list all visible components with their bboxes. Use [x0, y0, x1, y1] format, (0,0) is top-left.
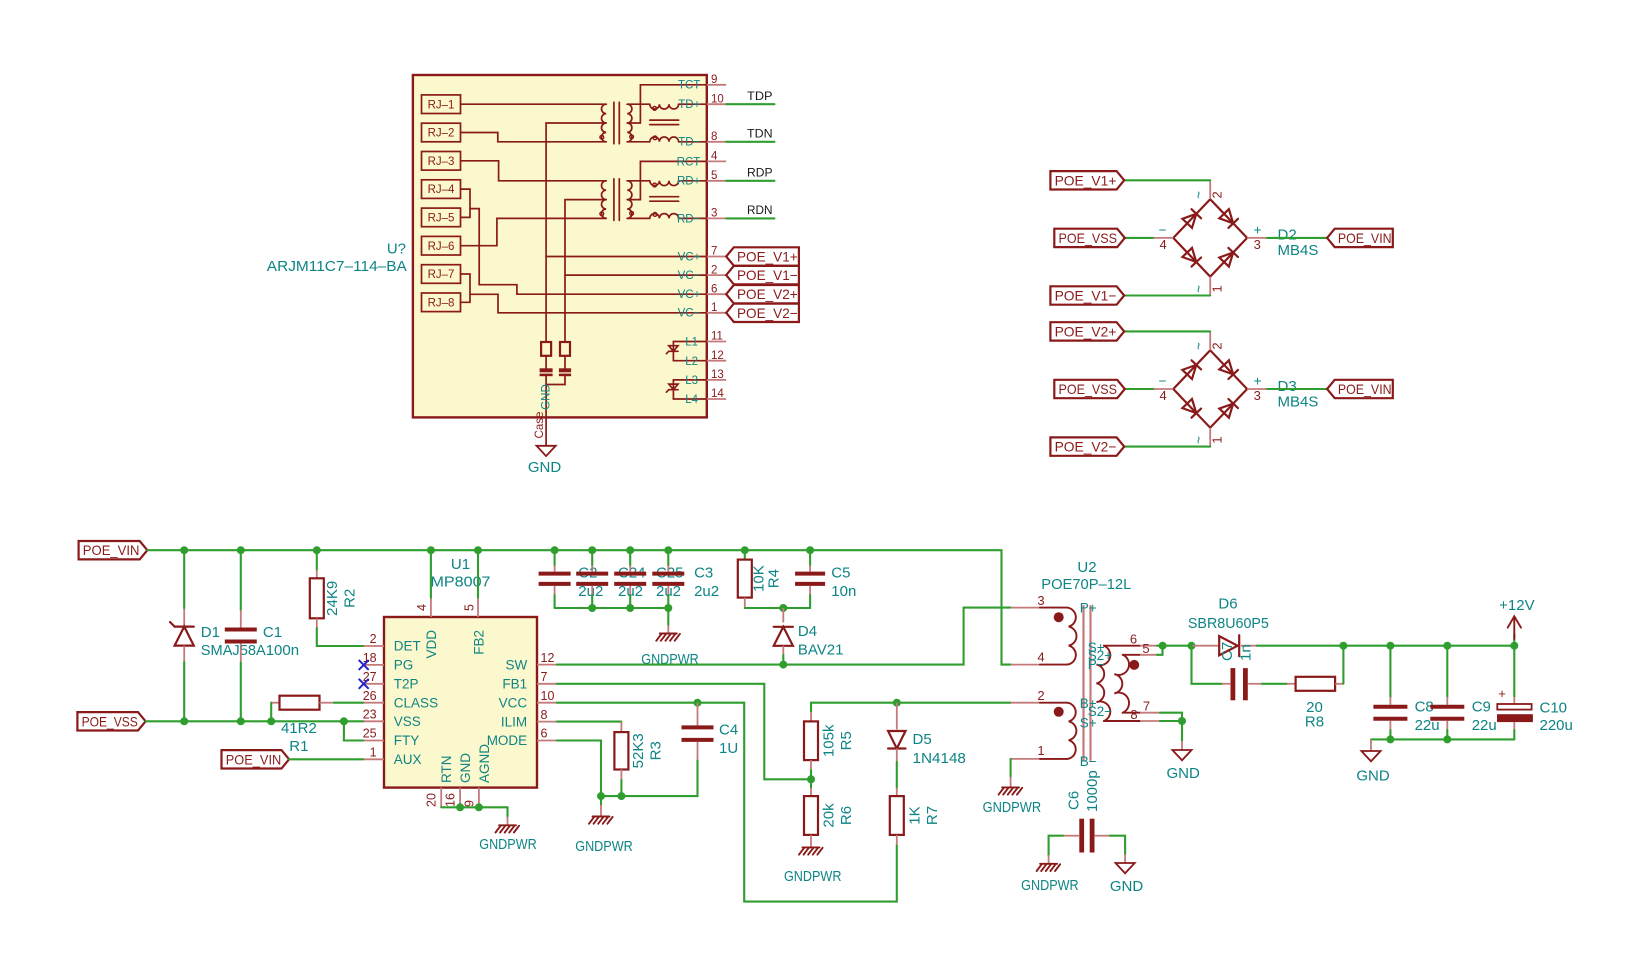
wire RJ-4 / RJ-5 tie	[461, 189, 471, 217]
ground GND (C6)	[1116, 863, 1135, 873]
bridge D2 pin stubs	[1209, 180, 1211, 199]
global label POE_VSS (bridge D2)	[1054, 229, 1125, 247]
svg-text:+12V: +12V	[1499, 597, 1534, 614]
svg-text:2: 2	[711, 264, 717, 276]
U1 pin 6 MODE	[537, 740, 557, 742]
svg-text:1n: 1n	[1238, 644, 1255, 661]
RJ-3 contact box	[422, 152, 461, 171]
svg-text:MB4S: MB4S	[1278, 242, 1319, 259]
bridge D3 diode 4-1	[1182, 399, 1196, 413]
svg-text:TD+: TD+	[678, 99, 700, 111]
RJ-4 contact box	[422, 180, 461, 199]
wire +12V output rail	[1257, 645, 1514, 647]
svg-text:8: 8	[541, 708, 548, 722]
svg-text:RJ–5: RJ–5	[428, 213, 455, 225]
T2 primary polarity dot	[600, 212, 604, 216]
svg-text:1: 1	[1037, 743, 1044, 758]
U1 pin 8 ILIM	[537, 721, 557, 723]
power symbol GNDPWR (C6)	[1040, 863, 1057, 865]
capacitor C25 body	[629, 550, 631, 565]
wire R2 to DET pin	[317, 628, 364, 646]
svg-text:GND: GND	[1167, 765, 1201, 782]
wire net RDN	[726, 217, 774, 219]
svg-text:POE_V2+: POE_V2+	[737, 286, 798, 302]
svg-text:C9: C9	[1472, 699, 1491, 716]
svg-text:D1: D1	[201, 624, 220, 641]
svg-text:26: 26	[363, 689, 377, 703]
svg-text:52K3: 52K3	[630, 733, 647, 768]
svg-text:220u: 220u	[1540, 717, 1573, 734]
svg-text:SW: SW	[505, 657, 527, 672]
svg-text:20: 20	[425, 793, 439, 807]
wire POE_V2+ to bridge D3	[1124, 330, 1210, 332]
global label POE_V1+	[1050, 171, 1124, 189]
svg-text:RTN: RTN	[439, 755, 454, 783]
svg-text:FTY: FTY	[394, 733, 420, 748]
U1 pin 1 AUX	[364, 758, 384, 760]
svg-text:GND: GND	[458, 753, 473, 783]
svg-text:POE_V2−: POE_V2−	[737, 305, 798, 321]
svg-text:SMAJ58A: SMAJ58A	[201, 642, 266, 659]
resistor R5 105k	[810, 703, 812, 712]
svg-text:4: 4	[1159, 237, 1166, 252]
U2 pin 6 lead	[1104, 645, 1140, 647]
bridge D3 diode 4-2	[1182, 365, 1196, 379]
U1 pin 12 SW	[537, 664, 557, 666]
wire pin5/pin6 tie	[1157, 646, 1163, 655]
bridge D3 diode 2-3	[1219, 360, 1233, 374]
transformer U2 primary winding P (pins 3-4)	[1011, 607, 1040, 609]
svg-text:20k: 20k	[821, 803, 838, 828]
transformer U2 secondary winding S2 (pins 5-7)	[1114, 655, 1129, 713]
svg-text:GND: GND	[541, 384, 553, 410]
svg-text:8: 8	[1130, 707, 1137, 722]
svg-text:100n: 100n	[266, 642, 299, 659]
wire net RDP	[726, 180, 774, 182]
svg-text:GNDPWR: GNDPWR	[784, 868, 842, 885]
U1 pin 5 FB2	[477, 598, 479, 617]
bridge rectifier D3 MB4S diamond	[1173, 350, 1247, 427]
wire RJ-6 to T2 primary bottom	[461, 218, 607, 245]
wire R1 to CLASS pin	[334, 702, 364, 704]
svg-text:2u2: 2u2	[694, 583, 719, 600]
svg-text:RJ–8: RJ–8	[428, 297, 455, 309]
svg-text:105k: 105k	[821, 724, 838, 757]
svg-text:RD+: RD+	[677, 176, 701, 188]
wire net VCC	[557, 703, 897, 902]
U1 pin 18 PG	[364, 664, 384, 666]
svg-text:POE_V1−: POE_V1−	[737, 267, 798, 283]
svg-text:5: 5	[462, 604, 476, 611]
svg-text:AUX: AUX	[394, 752, 422, 767]
U2 pin 7 lead	[1123, 712, 1140, 714]
global label POE_VIN (bridge D3)	[1327, 380, 1393, 398]
svg-text:2: 2	[370, 632, 377, 646]
svg-text:C3: C3	[694, 565, 713, 582]
connector pin 10 TD+	[707, 103, 726, 105]
svg-text:L2: L2	[685, 356, 698, 368]
svg-text:GNDPWR: GNDPWR	[983, 799, 1042, 816]
svg-text:12: 12	[541, 651, 555, 665]
svg-text:POE_V1+: POE_V1+	[1055, 172, 1117, 188]
diode D1 SMAJ58A	[183, 550, 185, 609]
svg-text:POE_VSS: POE_VSS	[1059, 381, 1118, 397]
power symbol GNDPWR (bias)	[1002, 786, 1019, 788]
svg-text:8: 8	[711, 131, 717, 143]
resistor R3 52K3	[620, 722, 622, 733]
global label POE_VIN (AUX)	[222, 750, 290, 768]
U2 secondary polarity dot	[1129, 660, 1139, 670]
no-connect X on PG	[359, 660, 369, 670]
T2 upper choke winding	[627, 180, 650, 182]
T2 core	[613, 179, 615, 221]
wire VSS dot to FTY pin	[344, 721, 364, 740]
T2 primary winding	[602, 181, 607, 219]
svg-text:12: 12	[711, 350, 724, 362]
T1 primary polarity dot	[600, 135, 604, 139]
svg-text:GNDPWR: GNDPWR	[1021, 877, 1079, 894]
svg-text:C1: C1	[263, 624, 282, 641]
svg-text:VC−: VC−	[678, 308, 701, 320]
svg-text:RJ–4: RJ–4	[428, 184, 455, 196]
svg-text:~: ~	[1192, 191, 1207, 199]
svg-text:R4: R4	[766, 569, 783, 588]
svg-text:3: 3	[711, 208, 717, 220]
svg-text:B−: B−	[1080, 754, 1097, 769]
termination resistor left	[541, 342, 551, 356]
connector pin 8 TD−	[707, 141, 726, 143]
svg-text:1N4148: 1N4148	[913, 750, 966, 767]
connector pin 11 L1	[707, 341, 726, 343]
svg-text:TCT: TCT	[678, 80, 700, 92]
T1 core	[613, 102, 615, 144]
connector pin 4 RCT	[707, 160, 726, 162]
capacitor C3 body	[667, 550, 669, 565]
svg-text:ILIM: ILIM	[501, 714, 527, 729]
svg-text:R7: R7	[924, 806, 941, 825]
svg-text:VCC: VCC	[499, 695, 528, 710]
svg-text:L4: L4	[685, 394, 698, 406]
svg-text:RDN: RDN	[747, 203, 773, 217]
svg-text:R3: R3	[648, 741, 665, 760]
U1 pin 16 GND	[459, 788, 461, 808]
termination resistor right	[560, 342, 570, 356]
svg-text:RJ–1: RJ–1	[428, 99, 455, 111]
svg-text:−: −	[1159, 223, 1167, 238]
svg-text:GND: GND	[528, 459, 562, 476]
svg-text:16: 16	[444, 793, 458, 807]
global label POE_V2+	[726, 285, 799, 303]
ground GND (secondary)	[1172, 750, 1191, 760]
svg-text:RJ–3: RJ–3	[428, 156, 455, 168]
capacitor C1 100n	[240, 550, 242, 610]
svg-text:1U: 1U	[719, 740, 738, 757]
wire net MODE to GNDPWR	[557, 741, 698, 797]
wire RJ-7 / RJ-8 tie	[461, 274, 471, 302]
svg-text:+: +	[1254, 223, 1262, 238]
T2 center-tap wire to pin	[627, 161, 707, 199]
U1 pin 27 T2P	[364, 683, 384, 685]
termination capacitor right	[564, 356, 566, 368]
svg-text:2: 2	[1037, 688, 1044, 703]
svg-text:7: 7	[711, 246, 717, 258]
T1 lower choke winding	[627, 141, 650, 143]
wire bridge D3 output POE_VIN	[1267, 388, 1327, 390]
svg-text:2: 2	[1210, 342, 1225, 349]
wire T2 center tap to termination / VC- pin 2	[565, 200, 606, 342]
svg-text:23: 23	[363, 708, 377, 722]
power symbol GNDPWR (divider)	[803, 846, 820, 848]
svg-text:C10: C10	[1540, 700, 1568, 717]
svg-text:POE_VIN: POE_VIN	[226, 751, 282, 767]
svg-text:POE_V2+: POE_V2+	[1055, 323, 1117, 339]
connector pin 9 TCT	[707, 84, 726, 86]
wire POE_VSS rail	[146, 720, 364, 722]
svg-text:+: +	[1498, 686, 1506, 701]
wire net TDN	[726, 141, 774, 143]
wire POE_VSS to bridge D2	[1125, 237, 1153, 239]
wire RJ-3 to T2 primary top	[461, 161, 607, 181]
capacitor C7 1n	[1222, 683, 1230, 685]
svg-text:VC−: VC−	[678, 270, 701, 282]
svg-text:1: 1	[1210, 285, 1225, 292]
transformer U2 secondary winding S (pins 6-8)	[1097, 646, 1111, 721]
svg-text:POE_V2−: POE_V2−	[1055, 439, 1117, 455]
U2 pin 8 lead	[1104, 720, 1140, 722]
resistor R2 24K9	[316, 550, 318, 570]
svg-text:MP8007: MP8007	[431, 574, 491, 591]
capacitor C24 body	[591, 550, 593, 565]
svg-text:P+: P+	[1080, 601, 1097, 616]
connector pin 2 VC−	[707, 274, 726, 276]
svg-text:R6: R6	[838, 806, 855, 825]
svg-text:TD−: TD−	[678, 137, 700, 149]
svg-text:1K: 1K	[907, 806, 924, 824]
bridge rectifier D2 MB4S diamond	[1173, 199, 1247, 276]
transformer U2 bias winding B (pins 2-1)	[1011, 702, 1040, 704]
svg-text:5: 5	[1142, 641, 1149, 656]
svg-text:FB1: FB1	[502, 677, 527, 692]
wire secondary output node	[1163, 645, 1192, 647]
svg-text:VSS: VSS	[394, 714, 421, 729]
capacitor C5 10n	[809, 550, 811, 565]
wire net FB1 to divider	[557, 684, 811, 780]
svg-text:VDD: VDD	[424, 630, 439, 659]
global label POE_VIN (input rail)	[79, 541, 148, 559]
svg-text:R2: R2	[342, 589, 359, 608]
svg-text:GND: GND	[1356, 768, 1390, 785]
svg-text:1: 1	[1210, 436, 1225, 443]
wire output ground bus	[1371, 738, 1514, 740]
RJ-1 contact box	[422, 95, 461, 114]
connector pin 6 VC+	[707, 293, 726, 295]
svg-text:POE_V1−: POE_V1−	[1055, 288, 1117, 304]
svg-text:CLASS: CLASS	[394, 695, 438, 710]
bridge D2 diode 2-3	[1219, 209, 1233, 223]
bridge D3 pin stubs	[1209, 331, 1211, 350]
junction dots on POE_VIN rail	[180, 546, 188, 554]
resistor R8 20	[1287, 683, 1296, 685]
svg-text:6: 6	[711, 283, 717, 295]
svg-text:RJ–6: RJ–6	[428, 241, 455, 253]
svg-text:~: ~	[1192, 342, 1207, 350]
svg-text:C6: C6	[1066, 791, 1083, 810]
svg-text:TDN: TDN	[747, 127, 773, 141]
svg-text:4: 4	[415, 604, 429, 611]
svg-text:9: 9	[711, 74, 717, 86]
svg-text:3: 3	[1254, 388, 1261, 403]
svg-text:GNDPWR: GNDPWR	[575, 838, 633, 855]
bridge D2 diode 4-2	[1182, 214, 1196, 228]
global label POE_V1−	[726, 266, 799, 284]
U1 pin 2 DET	[364, 645, 384, 647]
svg-text:FB2: FB2	[471, 630, 486, 655]
T2 lower choke winding	[627, 217, 650, 219]
resistor R6 20k	[810, 788, 812, 796]
svg-text:11: 11	[711, 331, 723, 343]
RJ-2 contact box	[422, 123, 461, 142]
svg-text:VC+: VC+	[678, 251, 701, 263]
termination capacitor left	[545, 356, 547, 368]
connector pin 3 RD−	[707, 217, 726, 219]
U1 pin 26 CLASS	[364, 702, 384, 704]
RJ-8 contact box	[422, 293, 461, 312]
U1 pin 9 AGND	[478, 788, 480, 808]
T2 choke core	[650, 196, 679, 198]
svg-text:RJ–7: RJ–7	[428, 269, 455, 281]
svg-text:6: 6	[541, 727, 548, 741]
RJ-6 contact box	[422, 236, 461, 255]
svg-text:U2: U2	[1077, 559, 1096, 576]
svg-text:10: 10	[711, 93, 724, 105]
power symbol GNDPWR (mode)	[593, 816, 610, 818]
svg-text:R5: R5	[838, 731, 855, 750]
svg-text:Case: Case	[534, 412, 546, 439]
svg-text:7: 7	[1143, 699, 1150, 714]
wire RJ-7/8 to VC- pin 1	[470, 294, 707, 313]
svg-text:POE_VSS: POE_VSS	[1059, 230, 1118, 246]
svg-text:POE_VSS: POE_VSS	[82, 713, 138, 729]
svg-text:U1: U1	[451, 556, 470, 573]
wire POE_V1+ to bridge D2	[1124, 179, 1210, 181]
snubber branch wire	[1192, 646, 1223, 684]
svg-text:MB4S: MB4S	[1278, 393, 1319, 410]
power symbol +12V	[1513, 634, 1515, 645]
svg-text:S+: S+	[1080, 716, 1097, 731]
connector pin 5 RD+	[707, 180, 726, 182]
svg-text:PG: PG	[394, 658, 414, 673]
wire R1 to POE_VSS rail	[270, 703, 272, 722]
svg-text:POE70P–12L: POE70P–12L	[1041, 576, 1131, 593]
power symbol GNDPWR (cap bank)	[660, 633, 677, 635]
global label POE_VSS (rail)	[77, 712, 145, 730]
U2 pin 5 lead	[1123, 654, 1140, 656]
global label POE_V2−	[1050, 437, 1124, 455]
wire secondary return to GND	[1181, 721, 1183, 741]
svg-text:MODE: MODE	[487, 733, 528, 748]
resistor R1 41R2	[271, 702, 279, 704]
T2 secondary winding	[627, 181, 632, 219]
svg-text:POE_VIN: POE_VIN	[83, 542, 140, 558]
svg-text:GNDPWR: GNDPWR	[479, 836, 537, 853]
svg-text:RDP: RDP	[747, 166, 773, 180]
wire pin7/pin8 tie	[1160, 713, 1182, 721]
wire U1 ground pins to GNDPWR	[441, 807, 507, 817]
capacitor C8 22u	[1389, 646, 1391, 697]
svg-text:VC+: VC+	[678, 289, 701, 301]
op-amp U1 MP8007 body	[384, 617, 537, 788]
U1 pin 7 FB1	[537, 683, 557, 685]
wire POE_VIN rail	[147, 550, 1011, 664]
svg-text:13: 13	[711, 369, 724, 381]
svg-text:GND: GND	[1110, 878, 1144, 895]
svg-text:DET: DET	[394, 639, 421, 654]
svg-text:RCT: RCT	[677, 156, 701, 168]
svg-text:ARJM11C7–114–BA: ARJM11C7–114–BA	[267, 258, 407, 275]
T1 secondary polarity dot	[630, 135, 634, 139]
svg-text:L1: L1	[685, 337, 698, 349]
svg-text:10n: 10n	[831, 583, 856, 600]
global label POE_V1−	[1050, 286, 1124, 304]
wire RJ-1 to T1 primary top	[461, 103, 607, 105]
svg-text:R1: R1	[289, 738, 308, 755]
T1 upper choke winding	[627, 103, 650, 105]
svg-text:4: 4	[1159, 388, 1166, 403]
connector pin 1 VC−	[707, 312, 726, 314]
svg-text:POE_V1+: POE_V1+	[737, 249, 798, 265]
svg-text:L3: L3	[685, 375, 698, 387]
svg-text:41R2: 41R2	[281, 720, 317, 737]
diode D5 1N4148	[896, 703, 898, 730]
wire capacitor bank ground bus	[555, 608, 669, 625]
U1 pin 10 VCC	[537, 702, 557, 704]
svg-text:POE_VIN: POE_VIN	[1338, 381, 1392, 397]
svg-text:~: ~	[1192, 285, 1207, 293]
svg-text:RJ–2: RJ–2	[428, 128, 455, 140]
wire POE_V1− to bridge D2	[1124, 294, 1210, 296]
capacitor C9 22u	[1446, 646, 1448, 697]
RJ-5 contact box	[422, 208, 461, 227]
svg-text:−: −	[1159, 374, 1167, 389]
svg-text:POE_VIN: POE_VIN	[1338, 230, 1392, 246]
ground GND case	[537, 446, 556, 456]
diode D4 BAV21	[782, 608, 784, 623]
T1 secondary winding	[627, 104, 632, 142]
wire U2 pin 1 to GNDPWR	[1010, 759, 1012, 777]
wire RJ-4/5 to VC+ pin 6	[470, 209, 707, 295]
capacitor C6 1000p	[1079, 819, 1084, 853]
capacitor C4 1U	[697, 703, 699, 726]
svg-text:9: 9	[462, 800, 476, 807]
connector pin 14 L4	[707, 398, 726, 400]
svg-text:T2P: T2P	[394, 677, 419, 692]
svg-text:25: 25	[363, 727, 377, 741]
svg-text:D5: D5	[913, 731, 932, 748]
svg-text:3: 3	[1254, 237, 1261, 252]
svg-text:1000p: 1000p	[1084, 770, 1101, 812]
svg-text:U?: U?	[387, 241, 406, 258]
wire POE_VSS to bridge D3	[1125, 388, 1153, 390]
U1 pin 4 VDD	[430, 598, 432, 617]
svg-text:D3: D3	[1278, 378, 1297, 395]
svg-text:7: 7	[541, 670, 548, 684]
svg-text:RD−: RD−	[677, 213, 701, 225]
capacitor C10 220u polarized	[1513, 646, 1515, 697]
svg-text:1: 1	[711, 302, 717, 314]
LED L1-L2	[672, 342, 674, 361]
svg-text:C7: C7	[1219, 642, 1236, 661]
svg-text:1: 1	[370, 746, 377, 760]
